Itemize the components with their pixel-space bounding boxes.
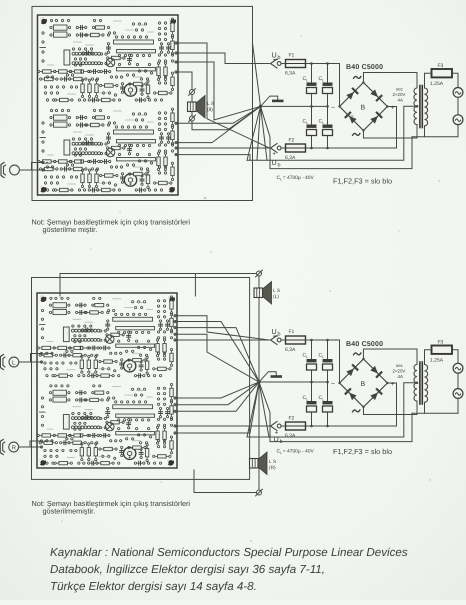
centre-tap rail xyxy=(247,383,417,437)
diode D2 xyxy=(370,89,383,102)
enclosure box 2 xyxy=(32,278,250,480)
wire speaker L to star xyxy=(258,276,260,382)
wire pad6 to star xyxy=(176,106,261,142)
wire pad to star xyxy=(175,328,259,382)
cap leads row2 xyxy=(311,382,313,401)
wire pad to star xyxy=(175,382,259,411)
PCB 1 xyxy=(38,15,179,195)
AC source 2 xyxy=(453,115,463,125)
star south rays xyxy=(247,106,261,160)
diode D3 xyxy=(344,111,357,124)
Ub- rail xyxy=(281,339,286,341)
references paragraph xyxy=(50,546,408,593)
transformer core xyxy=(419,362,421,404)
chassis ground lead xyxy=(259,372,276,382)
transformer primary xyxy=(425,88,428,126)
Ub+ rail xyxy=(281,147,286,149)
star node xyxy=(259,105,262,108)
star south rays xyxy=(247,382,259,437)
diode D3 xyxy=(344,388,357,401)
input jack xyxy=(1,163,19,178)
fuse F1 xyxy=(286,336,306,344)
Ub- rail xyxy=(281,63,286,65)
diode D1 xyxy=(346,364,359,377)
transformer core xyxy=(419,86,421,128)
centre tap xyxy=(416,105,419,108)
enclosure box 1 xyxy=(32,6,253,200)
wire star to speaker R xyxy=(258,382,260,490)
AC source 1 xyxy=(453,363,463,373)
earth line from star xyxy=(261,106,413,168)
mains bottom wire xyxy=(412,412,458,414)
wire pad to Ub- terminal xyxy=(175,316,269,340)
earth line from star xyxy=(259,382,412,442)
output pads on PCB edge xyxy=(174,315,176,317)
wire pad to star xyxy=(175,382,259,433)
wire pad7 to Ub+ terminal xyxy=(176,147,269,149)
star north ray xyxy=(253,43,261,106)
wire pad3 to star xyxy=(176,62,261,120)
transformer primary xyxy=(425,365,428,403)
chassis ground bar xyxy=(271,375,283,378)
speaker terminal bottom xyxy=(189,115,196,122)
centre-tap rail xyxy=(247,106,417,160)
Ub- terminal xyxy=(271,59,282,68)
centre tap xyxy=(416,382,419,385)
cap leads row1 xyxy=(311,64,313,83)
scan speckles xyxy=(61,35,439,541)
AC source 1 xyxy=(453,88,463,98)
transformer secondary xyxy=(414,365,417,402)
star node xyxy=(257,380,260,383)
speaker LS 8ohm xyxy=(188,96,206,119)
wire speaker L feed xyxy=(60,274,259,297)
wire pad to Ub+ terminal xyxy=(175,425,269,427)
speaker L terminal xyxy=(256,270,263,277)
wire pad to Ub- terminal xyxy=(175,339,269,341)
fuse F1 xyxy=(286,60,306,68)
AC source 2 xyxy=(453,389,463,399)
chassis ground lead xyxy=(261,96,278,106)
output pads on PCB edge xyxy=(175,42,177,44)
input wire branch xyxy=(32,163,44,171)
wire pad5 to star xyxy=(176,106,261,123)
speaker LS R xyxy=(250,452,268,475)
speaker LS L xyxy=(254,282,272,305)
wire speaker return to star xyxy=(192,106,261,129)
ground line star to caps xyxy=(259,381,328,383)
diode D1 xyxy=(346,87,359,100)
ground line star to caps xyxy=(261,105,328,107)
mains bottom wire xyxy=(412,136,458,138)
input jack R xyxy=(0,440,18,455)
input jack L xyxy=(0,355,18,370)
input wire xyxy=(19,169,43,171)
chassis ground bar xyxy=(272,100,284,103)
speaker terminal top xyxy=(189,89,196,96)
wire pad to star xyxy=(175,382,259,405)
wire riser to PCB xyxy=(194,274,196,297)
wire speaker R return xyxy=(194,470,257,493)
wire pad to star xyxy=(175,322,259,383)
wire pad to star xyxy=(175,334,259,382)
cap leads row2 xyxy=(311,106,313,124)
wire pad1 to Ub+ terminal xyxy=(176,43,269,148)
wire pad to star xyxy=(175,382,259,398)
Ub+ rail xyxy=(281,425,286,427)
Ub- terminal xyxy=(271,336,282,345)
speaker R terminal xyxy=(256,489,263,496)
wire pad8 stub xyxy=(176,155,250,161)
diode D2 xyxy=(370,365,383,378)
cap leads row1 xyxy=(311,340,313,359)
wire pad2 to Ub- terminal xyxy=(176,53,269,64)
wire pad4 to speaker xyxy=(176,72,192,102)
PCB 2 xyxy=(37,293,177,468)
diode D4 xyxy=(370,111,383,124)
junction dots xyxy=(310,62,329,149)
transformer secondary xyxy=(414,88,417,125)
diode D4 xyxy=(370,388,383,401)
junction dots xyxy=(310,339,329,428)
